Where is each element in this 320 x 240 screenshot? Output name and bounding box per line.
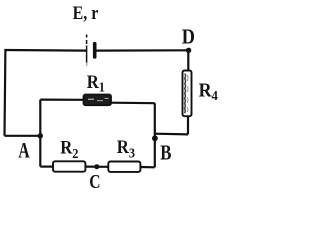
battery thick plate: [93, 42, 97, 59]
svg-text:R4: R4: [199, 80, 219, 104]
wire B up vertical: [154, 103, 156, 138]
svg-text:R3: R3: [117, 136, 136, 160]
wire D down to R4: [187, 50, 189, 70]
wire node A up to R1 row: [39, 100, 41, 136]
node D: [186, 48, 191, 53]
resistor R4: [183, 71, 192, 117]
svg-text:A: A: [18, 139, 30, 163]
wire R1 row left: [40, 98, 83, 100]
wire B down vertical: [154, 138, 156, 167]
wire R2 to R3: [85, 166, 108, 168]
svg-text:D: D: [182, 25, 195, 49]
svg-text:C: C: [89, 170, 100, 192]
svg-text:B: B: [160, 142, 171, 165]
node B: [152, 135, 158, 141]
resistor R3: [108, 162, 140, 172]
battery thin plate: [86, 35, 88, 67]
wire left vertical: [3, 49, 6, 136]
wire into node A: [5, 135, 41, 137]
svg-text:R2: R2: [60, 137, 79, 161]
wire R1 row right: [111, 102, 155, 105]
wire top left of battery: [5, 49, 87, 52]
resistor R1: [84, 95, 112, 106]
wire node A down to R2 row: [39, 136, 41, 167]
wire R4 bottom vertical: [187, 116, 189, 135]
node A: [38, 133, 43, 138]
svg-text:R1: R1: [87, 71, 105, 95]
wire top right of battery: [96, 49, 188, 51]
wire R3 row right: [140, 166, 154, 169]
wire R2 row left: [40, 166, 53, 168]
node C: [94, 164, 99, 169]
resistor R2: [53, 161, 85, 171]
svg-text:E, r: E, r: [73, 2, 99, 24]
wire node B to R4 branch: [155, 133, 188, 136]
